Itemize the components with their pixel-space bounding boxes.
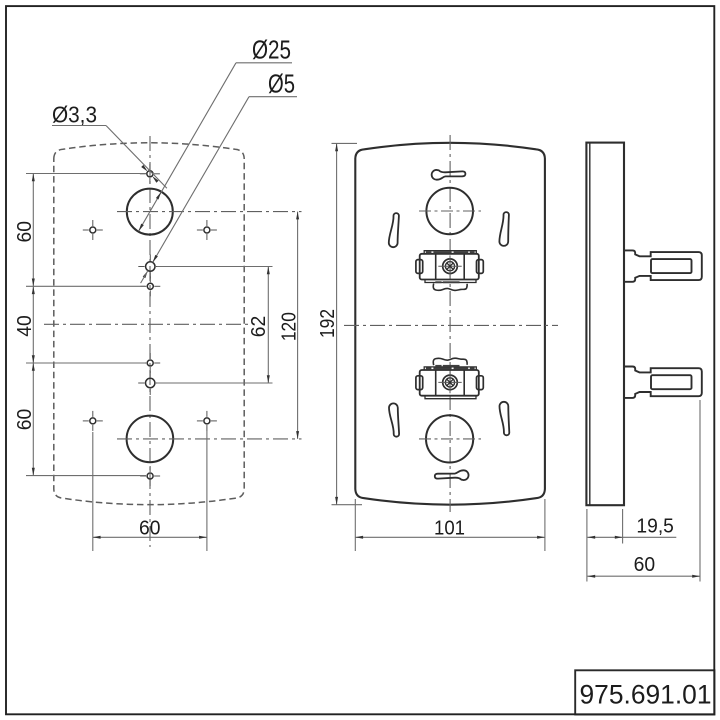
19,5 extension right <box>622 509 624 544</box>
dim line 60 side <box>587 575 700 577</box>
hole 3.3mm lower-mid <box>147 360 153 366</box>
left slot top <box>389 213 399 247</box>
leader 25 arrow upper <box>156 192 161 200</box>
60 extension right side <box>699 400 701 582</box>
svg-text:Ø5: Ø5 <box>268 69 295 99</box>
arrow left 101 <box>355 536 363 539</box>
arrow up at 173.5 <box>32 174 35 182</box>
hole 5mm lower <box>146 378 155 387</box>
extension line y=286.3 <box>26 285 145 287</box>
svg-text:Ø3,3: Ø3,3 <box>52 102 97 128</box>
extension y=383.0 right <box>157 382 273 384</box>
snap hook top <box>624 250 702 281</box>
side view body <box>586 143 624 506</box>
cross hole top-left <box>90 227 96 233</box>
svg-text:60: 60 <box>634 554 656 576</box>
circle 25mm top <box>127 189 173 235</box>
leader 5 arrow lower <box>143 271 148 279</box>
leader 25 arrow lower <box>139 224 144 232</box>
circle 25mm bottom <box>127 416 174 463</box>
svg-text:975.691.01: 975.691.01 <box>580 680 712 710</box>
middle vertical centerline <box>449 135 451 512</box>
bottom circle middle view <box>426 415 473 462</box>
dim line 60/40/60 <box>32 174 34 476</box>
extension line y=173.5 <box>26 173 146 175</box>
hole 3.3mm bottom <box>147 473 153 479</box>
top circle middle view <box>426 188 473 235</box>
svg-text:60: 60 <box>14 409 36 431</box>
arrow pair at 363.0 <box>32 355 35 363</box>
right slot bottom <box>500 402 510 435</box>
svg-text:192: 192 <box>317 309 339 338</box>
leader 3,3 diagonal <box>106 126 167 189</box>
dim line 19,5 <box>587 536 676 538</box>
extension line x=206.9 <box>206 427 208 551</box>
svg-text:60: 60 <box>139 518 161 540</box>
arrow left 60s <box>587 575 595 578</box>
cross hole bottom-left <box>90 418 96 424</box>
cross hole top-right <box>204 227 210 233</box>
top circle centerline mid <box>419 210 481 212</box>
arrow right 19,5 <box>615 536 623 539</box>
extension line x=92.8 <box>92 432 94 551</box>
dim line 62 <box>267 267 269 384</box>
hole 3.3mm top <box>147 171 153 177</box>
192 extension bottom <box>332 504 363 506</box>
arrow pair at 286.3 <box>32 279 35 287</box>
arrow left 60b <box>93 536 101 539</box>
arrow down 192 <box>335 497 338 505</box>
middle view plate outline <box>355 143 545 505</box>
arrow right 101 <box>537 536 545 539</box>
left view: dashed plate outline (drill template) <box>54 143 244 505</box>
arrow down 62 <box>267 375 270 383</box>
101 extension right <box>544 499 546 551</box>
top circle centerline <box>117 211 302 213</box>
left view horizontal centerline <box>44 323 248 325</box>
arrow left 19,5 <box>587 536 595 539</box>
arrow right 60b <box>199 536 207 539</box>
clamp bottom dark bar <box>435 365 441 367</box>
leader 3,3 arrow in <box>141 165 148 172</box>
dim line 60 bottom <box>93 536 207 538</box>
svg-text:19,5: 19,5 <box>636 515 674 537</box>
cross hole bottom-right <box>204 418 210 424</box>
leader 25 diagonal <box>139 63 236 231</box>
dim line 192 <box>336 143 338 504</box>
title box <box>575 670 714 714</box>
extension line y=475.6 <box>26 475 146 477</box>
arrow up 62 <box>267 267 270 275</box>
leader 25 underline <box>236 62 292 64</box>
arrow right 60s <box>692 575 700 578</box>
svg-text:40: 40 <box>14 315 36 337</box>
middle horizontal centerline <box>344 324 558 326</box>
left slot bottom <box>389 403 399 436</box>
clamp nut top (U1) <box>420 254 479 280</box>
snap hook bottom <box>624 367 702 398</box>
101 extension left <box>354 499 356 551</box>
top key slot <box>432 170 466 180</box>
leader 5 tail <box>141 271 148 284</box>
svg-text:62: 62 <box>248 316 270 338</box>
side view face line <box>589 143 591 506</box>
clamp nut bottom (U2) <box>420 370 479 396</box>
bottom circle centerline <box>117 438 302 440</box>
extension line y=363.0 <box>26 362 145 364</box>
svg-text:60: 60 <box>14 221 36 243</box>
19,5 extension left <box>586 509 588 582</box>
left view vertical centerline <box>149 136 151 547</box>
hole 3.3mm upper-mid <box>147 283 153 289</box>
192 extension top <box>332 142 358 144</box>
svg-text:Ø25: Ø25 <box>252 35 291 65</box>
spring clip above bottom clamp <box>433 358 467 365</box>
leader 5 underline <box>249 96 297 98</box>
svg-text:101: 101 <box>434 517 465 539</box>
hole 5mm upper <box>146 262 155 271</box>
extension y=266.5 right <box>157 266 273 268</box>
arrow up 192 <box>335 143 338 151</box>
bottom key slot <box>435 470 469 480</box>
clamp top dark bar <box>435 281 441 283</box>
leader 3,3 underline <box>52 125 106 127</box>
leader 3,3 arrow out <box>152 176 159 183</box>
svg-text:120: 120 <box>279 312 301 341</box>
leader 5 arrow upper <box>153 255 158 263</box>
dim line 101 <box>355 536 545 538</box>
right slot top <box>499 212 508 246</box>
spring clip below top clamp <box>433 283 467 290</box>
leader 5 diagonal <box>153 97 249 263</box>
arrow down at 475.6 <box>32 468 35 476</box>
bottom circle centerline mid <box>419 438 481 440</box>
dim line 120 <box>297 212 299 439</box>
arrow down 120 <box>296 431 299 439</box>
arrow up 120 <box>296 212 299 220</box>
